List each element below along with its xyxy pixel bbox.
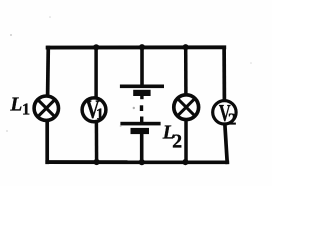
wire V1 branch bottom (95, 123, 99, 163)
scan specks (decorative) (6, 16, 252, 132)
cell 1 short plate (133, 90, 150, 96)
svg-text:L: L (9, 94, 22, 115)
lamp L1 (34, 96, 58, 120)
wire left upper (46, 46, 50, 97)
svg-text:1: 1 (22, 100, 30, 119)
wire right lower (225, 125, 227, 164)
svg-text:2: 2 (228, 110, 237, 129)
wire bottom rail (45, 160, 229, 164)
wire top rail (46, 45, 227, 49)
wire battery branch bottom (140, 134, 144, 163)
svg-text:2: 2 (172, 130, 182, 152)
cell 1 lower stub (140, 96, 143, 99)
voltmeter V1 (82, 95, 106, 124)
junction node bottom-d (182, 159, 188, 165)
dashed continuation dash (140, 105, 143, 111)
wire L2 branch top (184, 46, 188, 96)
cell 1 long plate (120, 85, 164, 89)
wire L2 branch bottom (184, 120, 188, 162)
junction node top-b (93, 44, 99, 50)
cell 2 long plate (120, 122, 160, 126)
battery B1 (multi-cell with dashed continuation) (120, 85, 164, 135)
wire battery branch top (140, 46, 144, 88)
junction node bottom-c (139, 159, 145, 165)
svg-text:1: 1 (96, 106, 104, 123)
junction node bottom-b (94, 159, 100, 165)
voltmeter V2 (213, 101, 237, 129)
wire right upper (222, 46, 226, 102)
cell 2 upper stub (140, 117, 143, 123)
cell 2 short plate (131, 128, 150, 134)
lamp L2 (174, 95, 199, 120)
wire V1 branch top (94, 46, 98, 99)
junction node top-d (183, 44, 189, 50)
wire left lower (45, 121, 49, 165)
junction node top-c (139, 44, 145, 50)
